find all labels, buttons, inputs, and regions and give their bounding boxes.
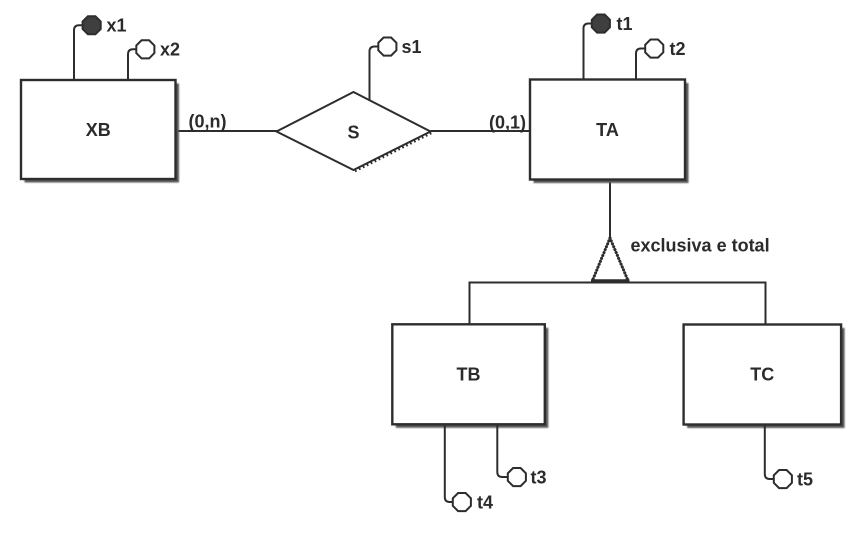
attribute connector t4 (445, 425, 452, 503)
attribute connector s1 (370, 47, 378, 102)
relationship S (277, 92, 432, 171)
entity TB (392, 324, 548, 428)
svg-text:x2: x2 (160, 40, 180, 60)
svg-text:(0,1): (0,1) (489, 113, 526, 133)
svg-text:t3: t3 (531, 468, 547, 488)
attribute t2 (octagon) (645, 39, 685, 59)
attribute t3 (octagon) (508, 468, 547, 488)
attribute connector x1 (74, 25, 82, 80)
svg-text:t4: t4 (477, 493, 493, 513)
svg-text:t1: t1 (617, 14, 633, 34)
svg-text:t2: t2 (670, 39, 686, 59)
svg-text:TB: TB (457, 365, 481, 385)
attribute t5 (octagon) (774, 470, 813, 490)
svg-text:x1: x1 (107, 16, 127, 36)
attribute s1 (octagon) (378, 37, 421, 57)
svg-text:(0,n): (0,n) (189, 112, 227, 132)
svg-text:TA: TA (596, 120, 619, 140)
entity TC (684, 325, 845, 429)
entity TA (530, 80, 689, 184)
wire ISA rail (470, 283, 766, 326)
attribute connector t1 (584, 24, 592, 80)
attribute connector t2 (636, 49, 645, 80)
ISA triangle (exclusive/total specialization) (591, 238, 630, 281)
attribute connector t5 (765, 425, 773, 480)
svg-text:exclusiva e total: exclusiva e total (631, 236, 770, 256)
attribute connector x2 (128, 49, 136, 80)
entity XB (21, 80, 179, 183)
attribute x2 (octagon) (136, 40, 180, 60)
wire TA to ISA triangle (609, 180, 611, 239)
svg-text:S: S (347, 123, 359, 143)
svg-text:XB: XB (86, 120, 111, 140)
svg-text:TC: TC (750, 365, 774, 385)
wire S to TA (431, 130, 531, 132)
key attribute t1 (filled octagon) (592, 14, 633, 34)
svg-text:s1: s1 (402, 37, 422, 57)
svg-text:t5: t5 (797, 470, 813, 490)
key attribute x1 (filled octagon) (83, 16, 127, 36)
attribute t4 (octagon) (453, 493, 493, 513)
attribute connector t3 (497, 425, 507, 478)
wire XB to S (176, 130, 278, 132)
